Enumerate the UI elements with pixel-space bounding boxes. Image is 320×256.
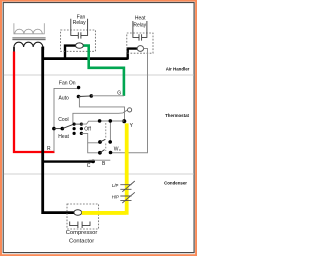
fan relay box bbox=[61, 30, 96, 51]
wire heat relay riser bbox=[128, 49, 138, 60]
heat relay box bbox=[127, 33, 153, 53]
node C dot bbox=[91, 160, 95, 164]
actuator dashed lower bbox=[105, 144, 107, 152]
svg-text:G: G bbox=[117, 91, 121, 97]
mode contact off left bbox=[73, 127, 76, 130]
svg-text:C: C bbox=[87, 163, 91, 169]
mode contact heat right bbox=[80, 132, 83, 135]
svg-text:L/P: L/P bbox=[112, 183, 119, 188]
compressor contactor coil bbox=[74, 210, 82, 216]
node Y junction bbox=[122, 119, 126, 123]
transformer T1 core bbox=[12, 37, 45, 39]
wire red R bbox=[14, 52, 55, 153]
thermostat rail from R bbox=[54, 88, 78, 151]
svg-text:H/P: H/P bbox=[112, 195, 119, 200]
mode contact heat left bbox=[73, 132, 76, 135]
svg-text:Condenser: Condenser bbox=[164, 180, 187, 185]
stage cool pole bbox=[98, 140, 102, 144]
stage heat contact bbox=[109, 151, 113, 155]
fan switch arm dot bbox=[90, 94, 94, 98]
wire cool step to Y line bbox=[81, 121, 99, 124]
actuator dashed upper bbox=[105, 123, 107, 138]
wire G line bbox=[91, 95, 124, 97]
svg-text:Compressor: Compressor bbox=[66, 230, 98, 236]
mode switch rail junction bbox=[52, 127, 56, 131]
wire green G bbox=[84, 46, 124, 96]
transformer T1 secondary bbox=[14, 42, 43, 47]
fan switch pole bbox=[77, 95, 81, 99]
svg-text:Fan On: Fan On bbox=[59, 80, 76, 86]
wire Y line bbox=[100, 120, 125, 122]
stage heat pole bbox=[98, 151, 102, 155]
section line thermostat bbox=[4, 173, 194, 175]
svg-text:Cool: Cool bbox=[58, 117, 68, 123]
wire thick black 24V hot bbox=[43, 47, 74, 213]
stage top dot right bbox=[109, 119, 113, 123]
wire fan relay riser bbox=[65, 46, 76, 59]
svg-text:Heat: Heat bbox=[58, 134, 69, 140]
svg-text:Thermostat: Thermostat bbox=[165, 113, 189, 118]
mode contact cool left bbox=[73, 123, 76, 126]
stage cool contact bbox=[108, 140, 112, 144]
fan relay coil bbox=[76, 43, 84, 48]
mode switch pole bbox=[61, 127, 65, 131]
wire cool to O bbox=[73, 110, 128, 123]
switch LP bbox=[120, 181, 135, 192]
compressor contact bbox=[70, 222, 90, 229]
svg-text:Auto: Auto bbox=[59, 95, 70, 101]
section line air handler bbox=[4, 74, 194, 76]
wire yellow Y bbox=[82, 123, 127, 212]
fan switch contact FanOn bbox=[77, 86, 80, 89]
svg-text:Relay: Relay bbox=[73, 20, 86, 26]
mode switch arm bbox=[62, 124, 74, 129]
mode switch pole wire bbox=[54, 128, 62, 130]
wire W from heat relay bbox=[110, 49, 147, 153]
wire thick black horizontal to relays bbox=[43, 57, 128, 60]
svg-text:Off: Off bbox=[84, 126, 91, 132]
svg-text:W: W bbox=[114, 147, 119, 153]
stage heat arm bbox=[100, 150, 105, 153]
heat relay contact bbox=[133, 21, 147, 41]
mode contact off right bbox=[80, 127, 83, 130]
wire heat feed lower bbox=[88, 143, 100, 153]
wire cool pair bbox=[74, 123, 81, 125]
fan switch arm bbox=[79, 95, 92, 98]
border right bbox=[195, 0, 197, 256]
svg-text:Relay: Relay bbox=[133, 22, 146, 28]
transformer T1 primary bbox=[14, 23, 44, 34]
stage cool arm bbox=[100, 139, 105, 142]
stage top dot left bbox=[98, 119, 102, 123]
fan relay contact bbox=[71, 19, 88, 39]
svg-text:Air Handler: Air Handler bbox=[166, 66, 190, 71]
wire thick black C bbox=[44, 160, 93, 162]
heat relay coil bbox=[137, 46, 143, 52]
wire auto to Y bbox=[79, 97, 124, 121]
compressor contactor box bbox=[67, 204, 99, 229]
label W sub bbox=[119, 149, 120, 150]
transformer secondary right lead bbox=[42, 47, 44, 51]
border left bbox=[0, 0, 2, 256]
svg-text:Heat: Heat bbox=[135, 16, 146, 22]
stage block right column bbox=[109, 121, 111, 142]
B bar bbox=[89, 159, 111, 161]
transformer secondary left lead bbox=[13, 47, 15, 52]
switch HP bbox=[120, 192, 135, 203]
border top bbox=[0, 0, 197, 2]
wire heat feed bbox=[81, 133, 99, 142]
border bottom bbox=[0, 254, 197, 256]
mode contact cool right bbox=[80, 123, 83, 126]
wire yellow to contactor bbox=[82, 211, 126, 215]
svg-text:R: R bbox=[47, 146, 51, 152]
svg-text:Contactor: Contactor bbox=[69, 238, 94, 244]
terminal O bbox=[128, 108, 132, 112]
